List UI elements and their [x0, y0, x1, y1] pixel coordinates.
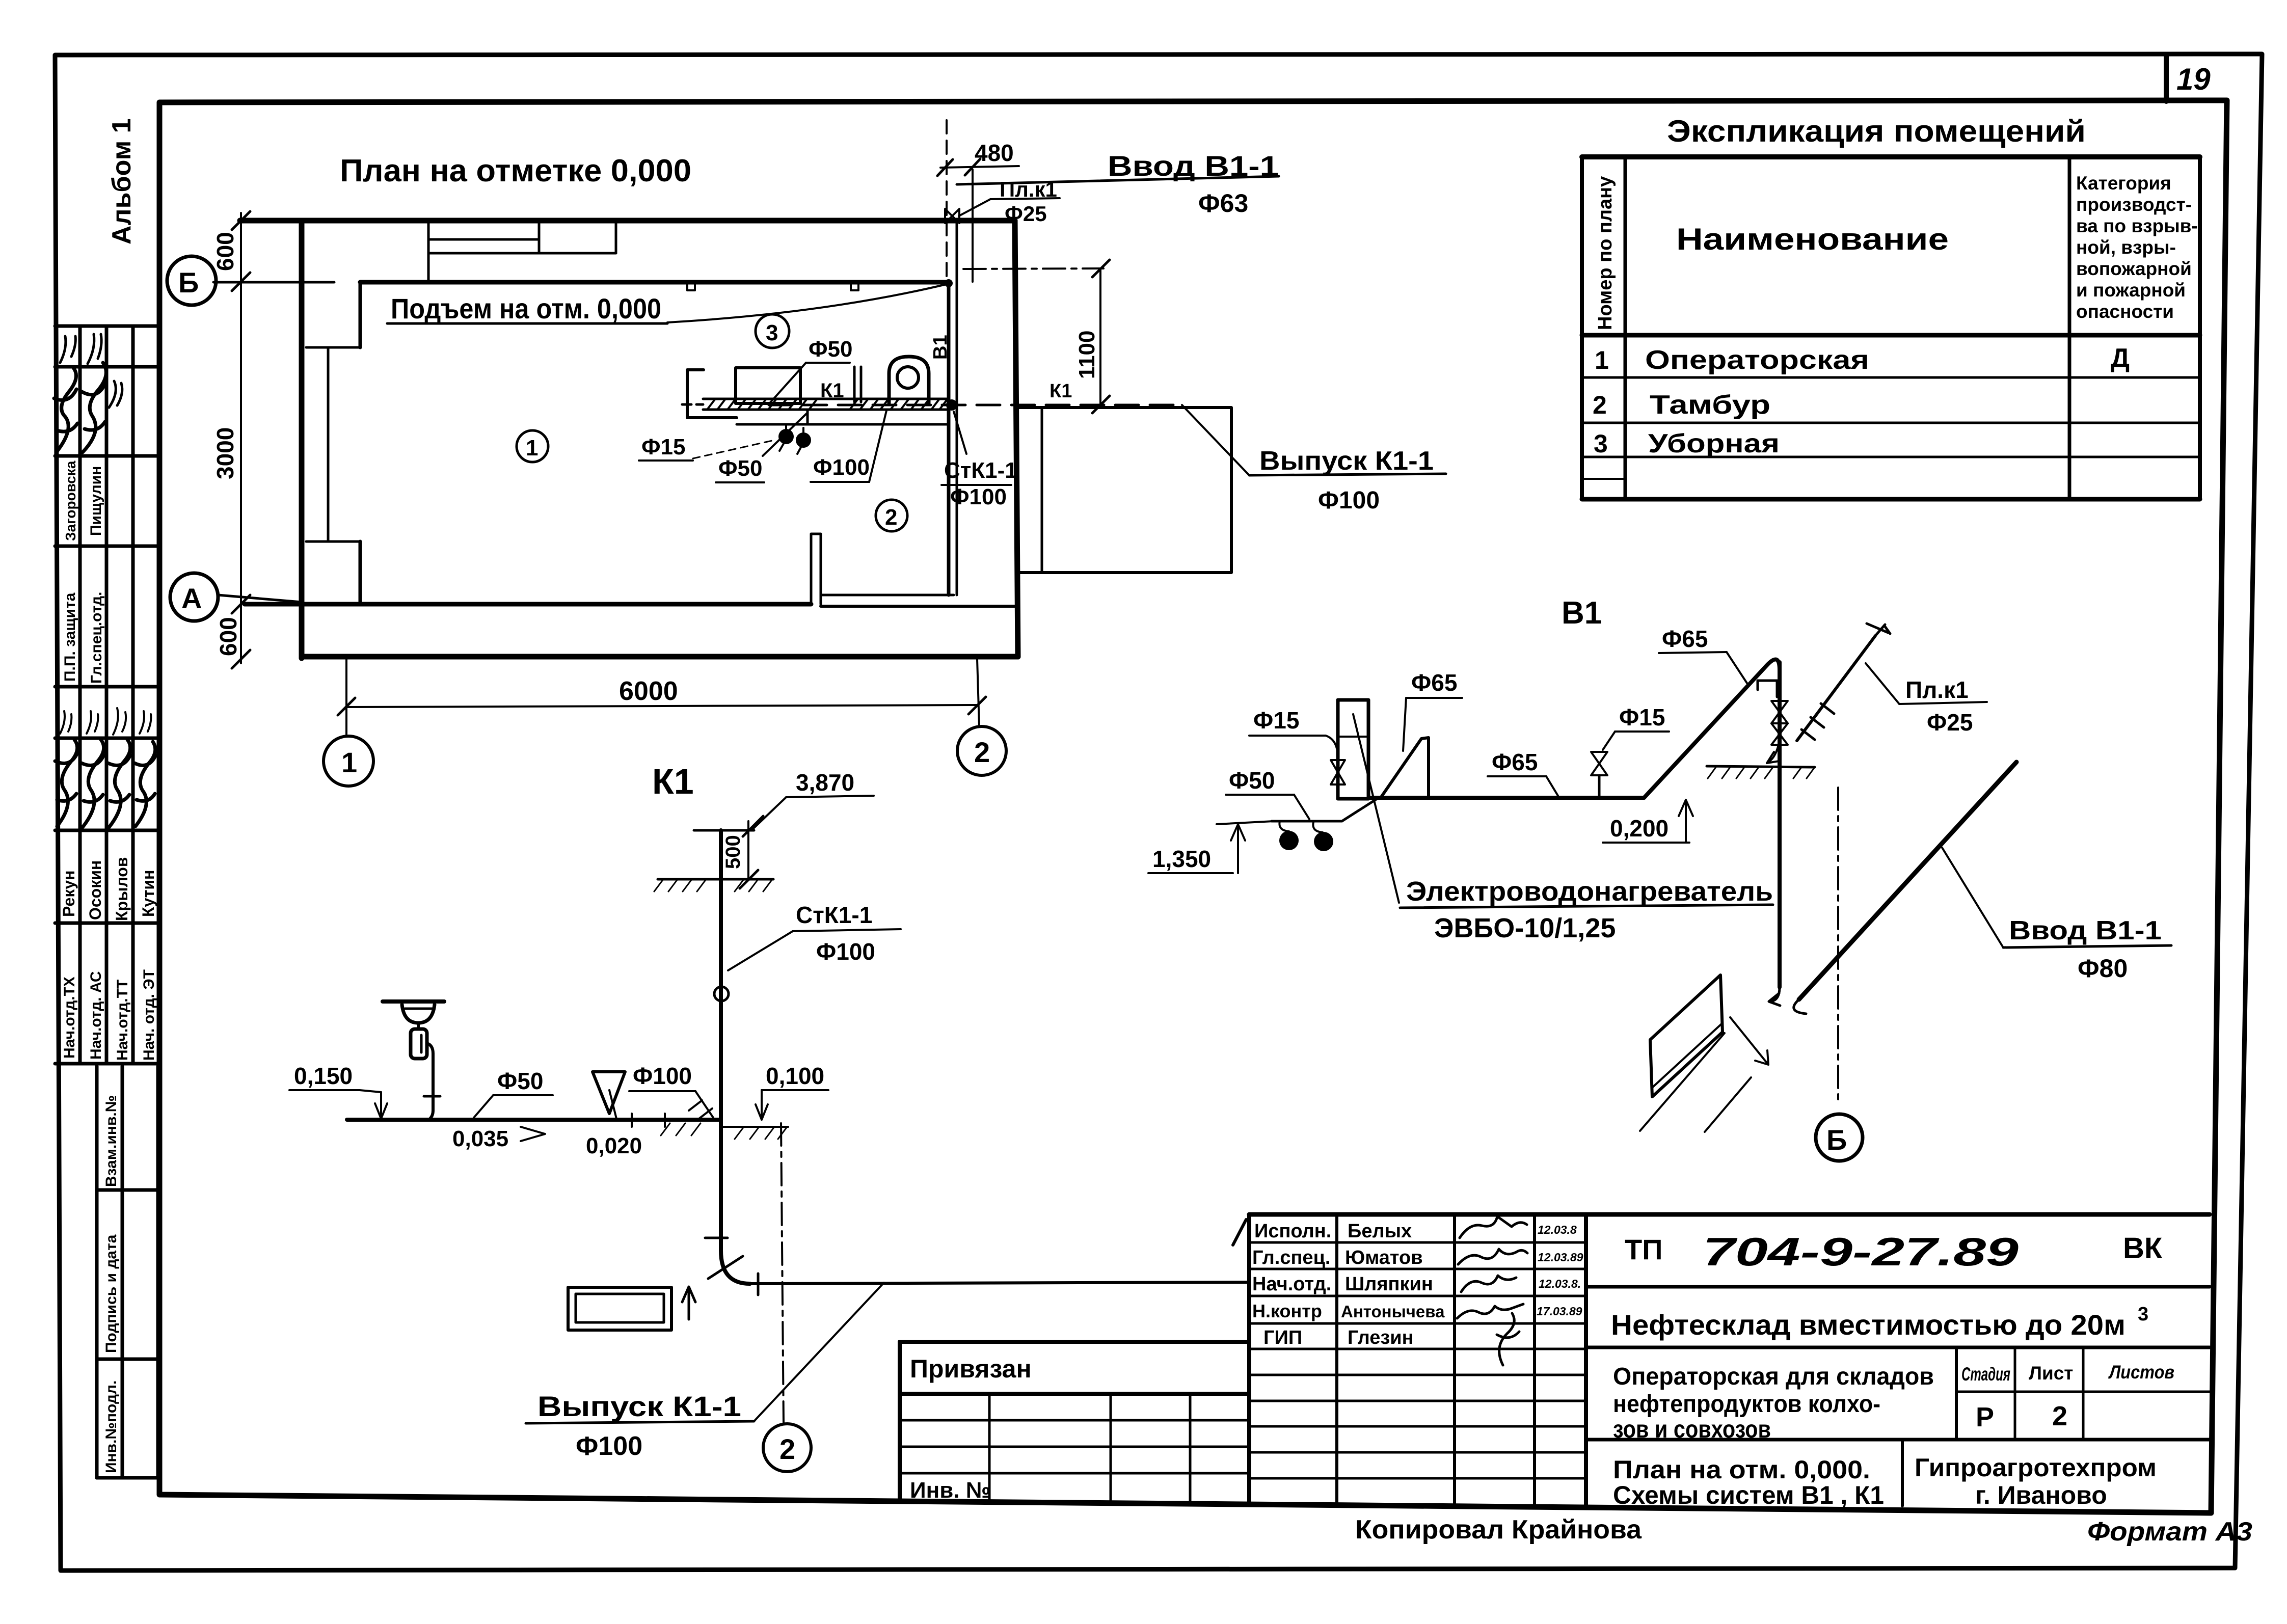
svg-text:опасности: опасности	[2076, 301, 2174, 322]
svg-text:ВК: ВК	[2123, 1232, 2163, 1265]
svg-text:Операторская: Операторская	[1645, 345, 1869, 375]
heater outlet bump	[1381, 738, 1429, 798]
signature scribbles row1	[54, 368, 77, 451]
dim 6000	[346, 705, 977, 707]
svg-text:зов и совхозов: зов и совхозов	[1613, 1416, 1771, 1443]
svg-text:Нач.отд.ТХ: Нач.отд.ТХ	[61, 977, 78, 1059]
wall tap valve	[945, 209, 959, 223]
svg-text:1: 1	[526, 436, 538, 461]
svg-text:Альбом 1: Альбом 1	[107, 118, 137, 245]
underground bend arrow	[1767, 740, 1780, 763]
svg-text:производст-: производст-	[2076, 194, 2192, 215]
svg-text:Нефтесклад вместимостью до 20м: Нефтесклад вместимостью до 20м	[1611, 1309, 2125, 1341]
svg-text:Ф80: Ф80	[2078, 954, 2128, 983]
drain pipe horizontal	[347, 1118, 721, 1122]
svg-text:19: 19	[2176, 62, 2211, 96]
svg-text:3: 3	[766, 320, 778, 345]
K1 sewer dashed line	[769, 404, 1182, 407]
svg-text:План на отм. 0,000.: План на отм. 0,000.	[1613, 1455, 1870, 1484]
svg-text:1,350: 1,350	[1152, 846, 1211, 872]
axis 2 circle	[977, 659, 979, 726]
signature table verticals	[1247, 1214, 1251, 1502]
heater leader line	[1353, 714, 1399, 903]
svg-text:Ф100: Ф100	[576, 1431, 642, 1461]
svg-text:Уборная: Уборная	[1648, 429, 1780, 458]
svg-text:Б: Б	[1826, 1124, 1847, 1156]
svg-text:Номер по плану: Номер по плану	[1595, 176, 1616, 330]
porch door line	[1041, 408, 1043, 573]
svg-text:Наименование: Наименование	[1676, 222, 1949, 256]
stack pipe StK1-1	[719, 830, 723, 1251]
svg-text:ТП: ТП	[1625, 1233, 1662, 1265]
wall top inner face	[360, 280, 949, 285]
signature table rows	[1249, 1242, 1586, 1478]
valves on drop pipe	[1771, 701, 1788, 723]
svg-text:Ф65: Ф65	[1662, 626, 1708, 652]
svg-text:Инв. №: Инв. №	[910, 1478, 991, 1503]
svg-text:Нач. отд. ЭТ: Нач. отд. ЭТ	[141, 969, 157, 1061]
axis dashdot B1	[1837, 788, 1839, 1099]
svg-text:В1: В1	[1562, 596, 1602, 631]
date scribbles row2	[60, 711, 71, 734]
svg-text:и пожарной: и пожарной	[2076, 280, 2186, 301]
svg-text:Электроводонагреватель: Электроводонагреватель	[1406, 876, 1773, 907]
room circle 1	[517, 430, 548, 462]
tap at top	[1758, 681, 1777, 697]
svg-text:К1: К1	[1050, 381, 1072, 402]
svg-text:0,150: 0,150	[294, 1063, 353, 1089]
funnel valve	[593, 1072, 625, 1114]
svg-text:Шляпкин: Шляпкин	[1345, 1274, 1433, 1295]
svg-text:0,035: 0,035	[452, 1126, 508, 1151]
axis B circle	[167, 256, 216, 305]
svg-text:Ф25: Ф25	[1927, 709, 1973, 736]
signature scribbles row2	[55, 740, 77, 826]
wall left outer	[299, 221, 305, 658]
svg-text:2: 2	[779, 1433, 795, 1465]
dim 1100	[1099, 269, 1101, 405]
object name row	[1586, 1346, 2210, 1349]
svg-text:Ф100: Ф100	[633, 1063, 692, 1089]
svg-text:Ф100: Ф100	[813, 455, 870, 480]
svg-text:3000: 3000	[212, 427, 238, 479]
axis dashdot K1	[781, 1123, 784, 1424]
axis A circle	[170, 573, 218, 621]
svg-text:Крылов: Крылов	[113, 857, 131, 921]
valve on F15 pipe	[1331, 760, 1345, 784]
svg-text:Ф50: Ф50	[809, 337, 853, 362]
svg-text:Ф25: Ф25	[1005, 202, 1047, 226]
ground line at stack	[658, 878, 773, 881]
svg-text:Операторская для складов: Операторская для складов	[1613, 1363, 1934, 1390]
left stamp table grid	[55, 326, 159, 1064]
toilet partition bracket	[687, 370, 737, 418]
lower stamp column grid	[97, 1066, 158, 1478]
svg-text:0,020: 0,020	[586, 1133, 642, 1158]
axis 1 circle	[345, 659, 347, 736]
drain diagonal	[1342, 798, 1379, 821]
partition stub	[853, 367, 856, 402]
svg-text:12.03.8.: 12.03.8.	[1539, 1277, 1581, 1290]
ground hatch right of stack	[721, 1126, 788, 1128]
svg-text:нефтепродуктов колхо-: нефтепродуктов колхо-	[1613, 1391, 1880, 1418]
subject cell	[1586, 1438, 2210, 1442]
riser 45 up	[1644, 659, 1780, 798]
svg-text:Ф65: Ф65	[1411, 669, 1457, 696]
outlet pipe K1-1	[750, 1282, 1248, 1284]
svg-text:Копировал Крайнова: Копировал Крайнова	[1355, 1515, 1642, 1545]
svg-text:12.03.8: 12.03.8	[1538, 1223, 1577, 1236]
water meter plate	[1650, 975, 1723, 1097]
stray mark	[1233, 1220, 1246, 1245]
dim 480	[940, 166, 1019, 168]
explication table grid	[1582, 154, 2200, 159]
svg-text:500: 500	[722, 835, 744, 869]
axis circle 2 scheme	[763, 1424, 811, 1472]
svg-text:В1: В1	[930, 335, 951, 360]
axis A line	[218, 595, 302, 602]
Pl.k1 riser 45	[1797, 636, 1875, 741]
outlet K1-1 leader	[1182, 405, 1249, 475]
svg-text:0,200: 0,200	[1610, 815, 1669, 842]
vertical drop pipe	[1778, 662, 1782, 987]
svg-text:Схемы систем В1 , К1: Схемы систем В1 , К1	[1613, 1481, 1884, 1509]
valve F15 on baseline	[1598, 775, 1601, 798]
svg-text:Гл.спец.: Гл.спец.	[1252, 1247, 1330, 1268]
title block top edge	[1249, 1212, 2210, 1217]
wall bottom inner face	[245, 602, 811, 607]
K1 pipe channel band	[703, 398, 949, 400]
svg-text:Лист: Лист	[2029, 1363, 2073, 1384]
svg-text:2: 2	[974, 736, 990, 768]
axis B line	[213, 281, 334, 284]
entrance canopy	[427, 221, 430, 282]
toilet bowl	[889, 357, 929, 403]
svg-text:704-9-27.89: 704-9-27.89	[1703, 1229, 2019, 1274]
svg-text:Инв.№подл.: Инв.№подл.	[103, 1381, 120, 1473]
tambour partition west	[811, 534, 821, 604]
svg-text:Глезин: Глезин	[1348, 1327, 1414, 1348]
svg-text:Ф100: Ф100	[816, 938, 875, 965]
svg-text:0,100: 0,100	[766, 1063, 824, 1089]
svg-text:Р: Р	[1976, 1402, 1994, 1432]
svg-text:Формат А3: Формат А3	[2087, 1517, 2252, 1547]
stack elbow to outlet	[721, 1251, 750, 1284]
svg-text:Стадия: Стадия	[1961, 1364, 2010, 1385]
svg-text:Пищулин: Пищулин	[88, 466, 104, 536]
svg-text:Пл.к1: Пл.к1	[1905, 676, 1969, 703]
date scribbles row1	[60, 336, 75, 363]
svg-text:Ф15: Ф15	[1619, 704, 1665, 730]
svg-text:480: 480	[975, 140, 1014, 166]
svg-text:Н.контр: Н.контр	[1252, 1301, 1322, 1321]
sheet number box	[2164, 55, 2169, 101]
slope arrow	[1730, 1017, 1768, 1065]
revision fitting circle	[714, 987, 729, 1001]
svg-text:Ф15: Ф15	[1253, 707, 1299, 734]
room circle 3	[756, 314, 789, 348]
svg-text:Листов: Листов	[2108, 1362, 2174, 1383]
signature squiggles title block	[1460, 1216, 1527, 1238]
main baseline pipe	[1368, 796, 1644, 800]
union fittings	[1801, 703, 1834, 740]
axis circle B scheme	[1816, 1114, 1863, 1161]
svg-text:П.П. защита: П.П. защита	[62, 592, 78, 682]
svg-text:Ф15: Ф15	[641, 435, 686, 459]
svg-text:17.03.89: 17.03.89	[1537, 1305, 1582, 1318]
svg-text:2: 2	[1593, 391, 1607, 419]
tambour east chase wall	[947, 282, 951, 595]
svg-text:600: 600	[215, 617, 241, 656]
porch outline right	[1018, 408, 1231, 573]
pipe couplings	[632, 1114, 665, 1127]
wall notch 1	[687, 282, 695, 290]
sheet name cell	[1901, 1440, 1904, 1506]
inner drawing frame	[159, 100, 2227, 1513]
tap circles	[778, 429, 794, 444]
svg-text:г. Иваново: г. Иваново	[1975, 1481, 2107, 1509]
tap at Pl.k1 top	[1867, 624, 1890, 636]
washbasin	[383, 999, 444, 1004]
inspection pit box	[568, 1287, 671, 1330]
svg-text:Юматов: Юматов	[1345, 1247, 1423, 1268]
svg-text:1: 1	[1595, 346, 1609, 374]
wall top outer	[240, 218, 1015, 224]
svg-text:2: 2	[885, 505, 897, 530]
B1 dashed riser	[946, 120, 948, 280]
svg-text:ЭВБО-10/1,25: ЭВБО-10/1,25	[1434, 913, 1616, 943]
svg-text:Подпись и дата: Подпись и дата	[103, 1234, 120, 1353]
signature row texts	[1252, 1221, 1445, 1348]
svg-text:Взам.инв.№: Взам.инв.№	[103, 1095, 120, 1187]
svg-text:Ф50: Ф50	[1229, 767, 1275, 794]
svg-text:3: 3	[1594, 429, 1608, 458]
vertical dimension chain line	[240, 213, 242, 663]
drop pipe bottom elbow	[1769, 987, 1780, 1006]
svg-text:Ф100: Ф100	[1318, 487, 1380, 514]
svg-text:ва по взрыв-: ва по взрыв-	[2076, 215, 2198, 236]
svg-text:Ф65: Ф65	[1492, 749, 1538, 775]
svg-text:1: 1	[341, 746, 357, 778]
svg-text:3,870: 3,870	[796, 769, 854, 796]
svg-text:6000: 6000	[619, 676, 678, 706]
svg-text:Экспликация помещений: Экспликация помещений	[1667, 114, 2086, 148]
svg-text:Б: Б	[178, 266, 199, 299]
svg-text:Антонычева: Антонычева	[1341, 1302, 1445, 1321]
svg-text:Ф50: Ф50	[718, 456, 763, 481]
svg-text:Нач.отд. АС: Нач.отд. АС	[88, 971, 104, 1060]
B1 pipe in toilet	[737, 423, 949, 426]
svg-text:Гипроагротехпром: Гипроагротехпром	[1915, 1453, 2157, 1482]
svg-text:Выпуск К1-1: Выпуск К1-1	[1259, 446, 1434, 476]
axis B dashdot right	[963, 268, 1104, 269]
ground hatch B1	[1707, 766, 1815, 767]
dim 500	[747, 821, 749, 880]
svg-text:Тамбур: Тамбур	[1650, 390, 1770, 420]
svg-text:Привязан: Привязан	[910, 1355, 1032, 1383]
svg-text:Нач.отд.ТТ: Нач.отд.ТТ	[114, 980, 131, 1061]
svg-text:вопожарной: вопожарной	[2076, 258, 2192, 279]
water heater tank	[1338, 700, 1368, 799]
svg-text:Ф50: Ф50	[497, 1068, 543, 1094]
svg-text:Осокин: Осокин	[86, 860, 104, 920]
floor line with traps	[1272, 820, 1342, 823]
svg-text:2: 2	[2052, 1401, 2067, 1431]
svg-text:К1: К1	[652, 762, 694, 801]
svg-text:Рекун: Рекун	[60, 871, 78, 917]
svg-text:Категория: Категория	[2076, 173, 2171, 194]
svg-text:СтК1-1: СтК1-1	[796, 902, 872, 928]
svg-text:Д: Д	[2111, 343, 2130, 373]
svg-text:Выпуск К1-1: Выпуск К1-1	[537, 1390, 741, 1422]
svg-text:Ввод В1-1: Ввод В1-1	[2009, 916, 2162, 945]
svg-text:Исполн.: Исполн.	[1254, 1221, 1331, 1242]
svg-text:А: А	[181, 582, 202, 614]
wall notch 2	[851, 282, 858, 290]
date scribbles title block	[1537, 1223, 1583, 1318]
svg-text:ной, взры-: ной, взры-	[2076, 237, 2176, 258]
cistern	[736, 368, 800, 403]
svg-text:3: 3	[2138, 1304, 2148, 1325]
svg-text:Нач.отд.: Нач.отд.	[1252, 1274, 1331, 1295]
tambour partition south double wall	[821, 594, 954, 597]
wall right outer	[1015, 221, 1018, 657]
project number row	[1586, 1285, 2210, 1289]
svg-text:ГИП: ГИП	[1263, 1327, 1302, 1348]
room circle 2	[876, 500, 907, 531]
svg-text:Белых: Белых	[1348, 1221, 1412, 1242]
privyazan table	[900, 1340, 1249, 1344]
stack top cap	[694, 829, 754, 832]
svg-text:Ф63: Ф63	[1198, 189, 1248, 218]
inlet line Vvod V1-1	[1799, 762, 2016, 999]
svg-text:Загоровска: Загоровска	[63, 461, 78, 541]
svg-text:600: 600	[212, 232, 238, 271]
svg-text:Гл.спец.отд.: Гл.спец.отд.	[88, 592, 105, 684]
trap circles	[1279, 821, 1323, 832]
svg-text:12.03.89: 12.03.89	[1538, 1251, 1583, 1264]
wall left inner segments	[359, 282, 362, 347]
svg-text:К1: К1	[820, 380, 844, 402]
svg-text:СтК1-1: СтК1-1	[944, 458, 1017, 483]
svg-text:1100: 1100	[1074, 331, 1099, 379]
ramp leader curve	[667, 284, 949, 322]
svg-text:План на отметке 0,000: План на отметке 0,000	[340, 153, 691, 188]
window niche left wall	[306, 346, 360, 349]
svg-text:Подъем на отм. 0,000: Подъем на отм. 0,000	[391, 292, 661, 324]
svg-text:Кутин: Кутин	[139, 870, 157, 917]
wall bottom outer	[302, 654, 1018, 660]
flow arrow to pit	[682, 1287, 695, 1319]
svg-text:Ф100: Ф100	[950, 484, 1007, 509]
